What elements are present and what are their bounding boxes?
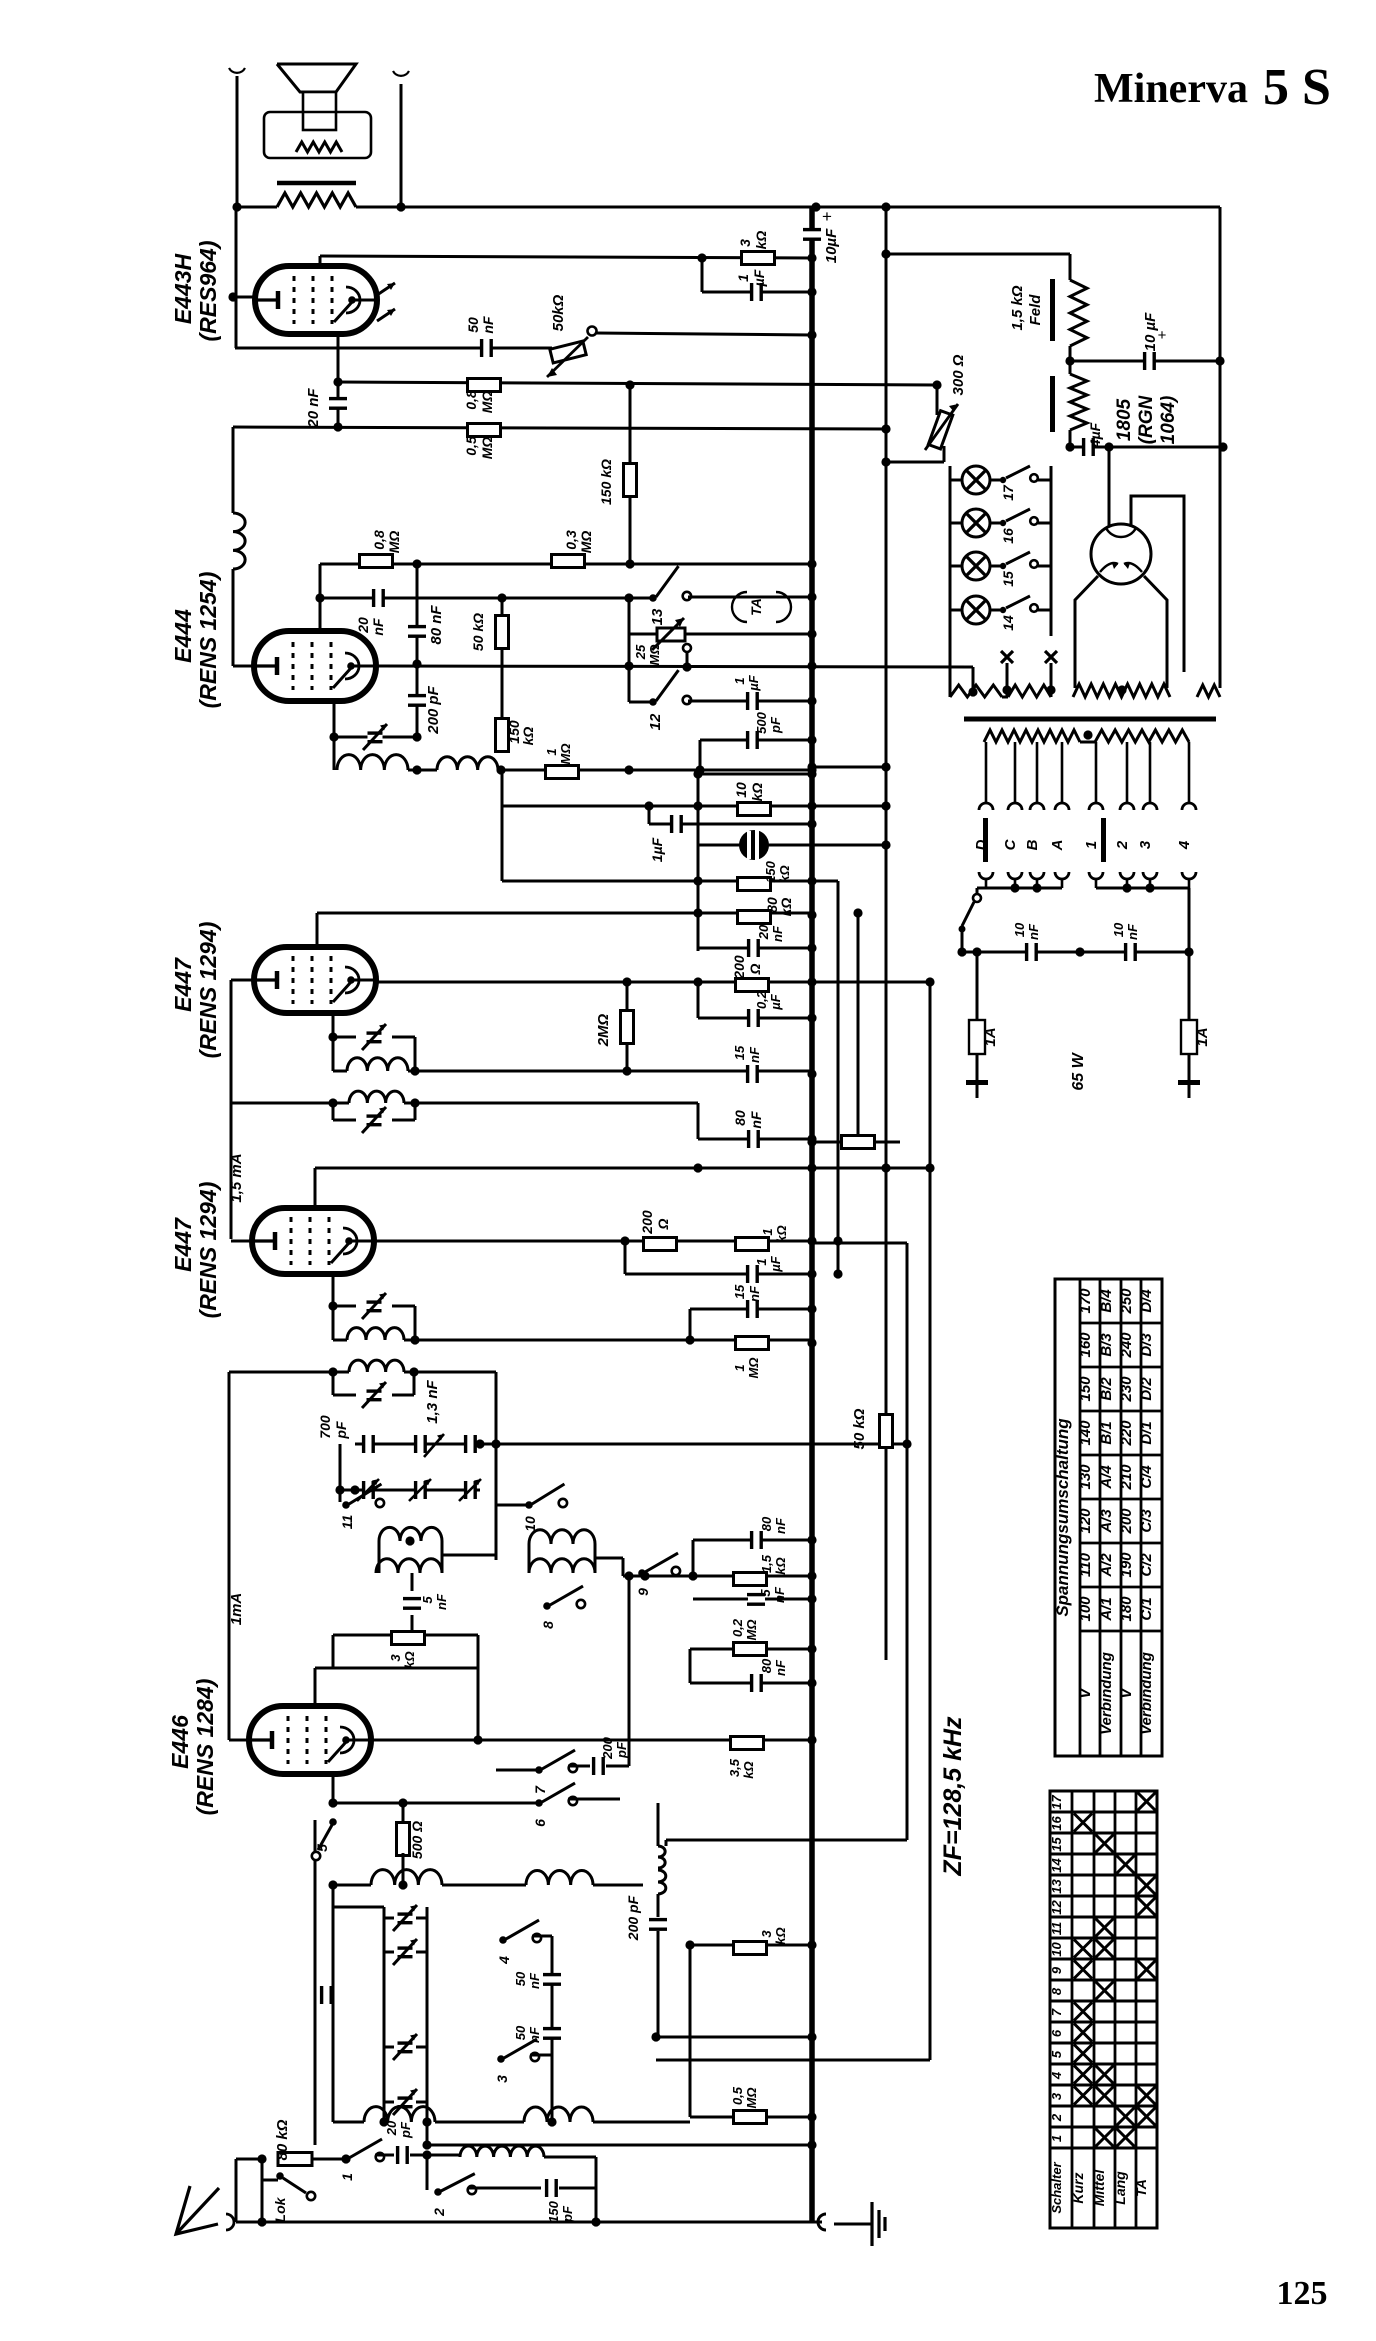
svg-text:kΩ: kΩ: [774, 1225, 789, 1242]
svg-text:0,3: 0,3: [563, 530, 579, 550]
svg-text:300 Ω: 300 Ω: [950, 354, 967, 395]
svg-text:B/1: B/1: [1098, 1421, 1115, 1444]
svg-text:ZF=128,5 kHz: ZF=128,5 kHz: [939, 1716, 967, 1877]
svg-text:20: 20: [756, 924, 771, 940]
svg-text:240: 240: [1118, 1332, 1135, 1359]
svg-text:C: C: [1002, 838, 1019, 850]
svg-text:3: 3: [1137, 840, 1154, 849]
svg-text:1: 1: [754, 1258, 769, 1265]
svg-text:4: 4: [1176, 840, 1193, 850]
svg-text:kΩ: kΩ: [741, 1761, 756, 1778]
svg-text:E447: E447: [170, 957, 196, 1012]
svg-text:TA: TA: [748, 598, 764, 616]
svg-text:A/2: A/2: [1098, 1553, 1115, 1578]
svg-text:150: 150: [763, 860, 778, 882]
svg-text:pF: pF: [560, 2205, 575, 2223]
svg-text:10: 10: [1049, 1942, 1064, 1957]
svg-text:700: 700: [317, 1415, 333, 1439]
svg-text:(RENS 1284): (RENS 1284): [192, 1679, 218, 1816]
svg-text:MΩ: MΩ: [746, 1358, 761, 1379]
svg-text:C/1: C/1: [1138, 1597, 1155, 1620]
svg-text:Ω: Ω: [655, 1218, 671, 1230]
svg-text:A/4: A/4: [1098, 1465, 1115, 1490]
svg-text:50 kΩ: 50 kΩ: [851, 1408, 868, 1449]
svg-text:5: 5: [758, 1589, 773, 1597]
svg-text:E443H: E443H: [170, 253, 196, 324]
svg-text:1064): 1064): [1158, 396, 1179, 445]
svg-text:1: 1: [735, 274, 751, 282]
svg-text:80: 80: [759, 1516, 774, 1531]
svg-text:7: 7: [532, 1785, 548, 1794]
svg-text:250: 250: [1118, 1288, 1135, 1315]
svg-text:120: 120: [1077, 1508, 1094, 1534]
svg-text:50: 50: [513, 2025, 528, 2040]
svg-text:11: 11: [1049, 1922, 1064, 1936]
svg-text:2: 2: [1049, 2113, 1064, 2122]
svg-text:6: 6: [1049, 2029, 1064, 2037]
svg-text:500 Ω: 500 Ω: [409, 1821, 425, 1859]
svg-text:0,8: 0,8: [371, 530, 387, 550]
svg-text:pF: pF: [768, 716, 783, 734]
svg-text:B/3: B/3: [1098, 1333, 1115, 1357]
svg-text:kΩ: kΩ: [402, 1651, 417, 1668]
svg-text:1,5: 1,5: [759, 1554, 774, 1573]
svg-text:65 W: 65 W: [1070, 1051, 1087, 1090]
svg-text:nF: nF: [773, 1517, 788, 1534]
svg-text:200: 200: [600, 1736, 615, 1759]
svg-text:1: 1: [732, 1364, 747, 1371]
svg-text:80: 80: [759, 1658, 774, 1673]
svg-text:100: 100: [1077, 1596, 1094, 1622]
svg-text:Schalter: Schalter: [1049, 2161, 1064, 2213]
svg-text:2MΩ: 2MΩ: [595, 1013, 612, 1047]
svg-text:4: 4: [1049, 2071, 1064, 2080]
svg-text:17: 17: [1049, 1795, 1064, 1810]
svg-text:(RENS 1294): (RENS 1294): [195, 922, 221, 1059]
svg-text:nF: nF: [747, 1046, 762, 1063]
svg-text:1: 1: [1083, 841, 1100, 849]
svg-text:10: 10: [1111, 922, 1126, 937]
svg-text:200: 200: [731, 955, 747, 980]
svg-text:E444: E444: [170, 609, 196, 663]
svg-text:D/1: D/1: [1138, 1421, 1155, 1444]
svg-text:130: 130: [1077, 1464, 1094, 1490]
svg-text:210: 210: [1118, 1464, 1135, 1491]
svg-text:µF: µF: [746, 674, 761, 691]
svg-text:MΩ: MΩ: [578, 531, 594, 554]
svg-text:10: 10: [733, 782, 749, 798]
svg-text:15: 15: [1049, 1837, 1064, 1852]
svg-text:16: 16: [1000, 528, 1016, 544]
svg-text:nF: nF: [770, 925, 785, 942]
svg-text:150: 150: [1077, 1376, 1094, 1402]
svg-text:1: 1: [1049, 2135, 1064, 2142]
svg-text:C/2: C/2: [1138, 1553, 1155, 1577]
svg-text:80 nF: 80 nF: [428, 605, 445, 645]
svg-text:230: 230: [1118, 1376, 1135, 1403]
svg-text:A: A: [1049, 840, 1066, 852]
svg-text:1: 1: [544, 748, 559, 755]
svg-text:3,5: 3,5: [727, 1758, 742, 1777]
svg-text:50 kΩ: 50 kΩ: [470, 613, 486, 651]
svg-text:10µF: 10µF: [823, 228, 840, 263]
svg-text:6: 6: [532, 1819, 548, 1827]
svg-text:14: 14: [1000, 615, 1016, 631]
svg-text:D/3: D/3: [1138, 1333, 1155, 1357]
svg-text:C/4: C/4: [1138, 1465, 1155, 1489]
svg-text:nF: nF: [748, 1111, 764, 1129]
svg-text:nF: nF: [1125, 923, 1140, 940]
svg-text:kΩ: kΩ: [773, 1927, 788, 1944]
svg-text:8: 8: [1049, 1987, 1064, 1995]
svg-text:kΩ: kΩ: [777, 865, 792, 882]
svg-text:µF: µF: [768, 993, 783, 1010]
svg-text:0,8: 0,8: [463, 390, 479, 410]
svg-text:140: 140: [1077, 1420, 1094, 1446]
svg-text:V: V: [1077, 1687, 1094, 1699]
svg-text:1,3 nF: 1,3 nF: [424, 1379, 441, 1423]
svg-text:Verbindung: Verbindung: [1098, 1652, 1115, 1735]
svg-text:MΩ: MΩ: [479, 391, 495, 414]
svg-text:160: 160: [1077, 1332, 1094, 1358]
svg-text:pF: pF: [333, 1421, 349, 1440]
svg-text:C/3: C/3: [1138, 1509, 1155, 1533]
svg-text:4µF: 4µF: [1087, 422, 1103, 448]
svg-text:B: B: [1024, 839, 1041, 850]
svg-text:nF: nF: [747, 1285, 762, 1302]
svg-text:9: 9: [1049, 1966, 1064, 1974]
svg-text:11: 11: [339, 1515, 355, 1530]
svg-text:15: 15: [732, 1045, 747, 1060]
svg-text:150 kΩ: 150 kΩ: [598, 459, 614, 505]
svg-text:500: 500: [754, 711, 769, 733]
svg-text:1,5 kΩ: 1,5 kΩ: [1009, 285, 1026, 330]
svg-text:13: 13: [1049, 1879, 1064, 1894]
svg-text:+: +: [822, 207, 832, 226]
svg-text:8: 8: [540, 1621, 556, 1629]
svg-text:1: 1: [732, 677, 747, 684]
svg-text:pF: pF: [398, 2121, 413, 2139]
svg-text:0,2: 0,2: [730, 1618, 745, 1637]
svg-text:D/4: D/4: [1138, 1289, 1155, 1313]
svg-text:kΩ: kΩ: [753, 231, 769, 250]
svg-text:µF: µF: [751, 269, 767, 287]
svg-text:Minerva: Minerva: [1094, 66, 1248, 112]
svg-text:Lang: Lang: [1112, 2171, 1128, 2205]
svg-text:kΩ: kΩ: [749, 783, 765, 802]
svg-text:(RENS 1294): (RENS 1294): [195, 1182, 221, 1319]
svg-text:nF: nF: [1026, 923, 1041, 940]
svg-text:1µF: 1µF: [649, 837, 665, 862]
svg-text:180: 180: [1118, 1596, 1135, 1622]
svg-text:B/4: B/4: [1098, 1289, 1115, 1313]
svg-text:1A: 1A: [1194, 1027, 1211, 1046]
svg-text:3: 3: [737, 239, 753, 247]
svg-text:200: 200: [1118, 1508, 1135, 1535]
svg-text:50: 50: [465, 317, 481, 333]
svg-text:0,5: 0,5: [730, 2086, 745, 2105]
svg-text:nF: nF: [773, 1659, 788, 1676]
svg-text:20: 20: [355, 617, 371, 634]
svg-text:9: 9: [635, 1588, 651, 1596]
svg-text:13: 13: [649, 608, 666, 625]
svg-text:0,5: 0,5: [463, 436, 479, 456]
svg-text:150: 150: [546, 2200, 561, 2222]
svg-text:TA: TA: [1133, 2179, 1149, 2197]
svg-text:125: 125: [1277, 2275, 1328, 2312]
svg-text:1: 1: [339, 2173, 355, 2181]
svg-text:3: 3: [494, 2075, 510, 2083]
svg-text:25: 25: [633, 644, 648, 660]
svg-text:D/2: D/2: [1138, 1377, 1155, 1401]
svg-text:12: 12: [1049, 1900, 1064, 1915]
svg-text:nF: nF: [527, 1972, 542, 1989]
svg-text:3: 3: [1049, 2092, 1064, 2100]
svg-text:Kurz: Kurz: [1070, 2172, 1086, 2203]
svg-text:B/2: B/2: [1098, 1377, 1115, 1401]
svg-text:Mittel: Mittel: [1091, 2169, 1107, 2207]
svg-text:V: V: [1118, 1687, 1135, 1699]
svg-text:MΩ: MΩ: [558, 744, 573, 765]
svg-text:50: 50: [513, 1971, 528, 1986]
svg-text:15: 15: [1000, 571, 1016, 587]
svg-text:(RES964): (RES964): [195, 241, 221, 342]
svg-text:kΩ: kΩ: [520, 727, 536, 746]
svg-text:190: 190: [1118, 1552, 1135, 1578]
svg-text:20: 20: [384, 2120, 399, 2136]
svg-text:E447: E447: [170, 1217, 196, 1272]
svg-text:Verbindung: Verbindung: [1138, 1652, 1155, 1735]
svg-text:20 nF: 20 nF: [305, 388, 322, 429]
svg-text:Lok: Lok: [272, 2196, 288, 2222]
svg-text:nF: nF: [434, 1593, 449, 1610]
svg-text:E446: E446: [167, 1715, 193, 1769]
svg-text:MΩ: MΩ: [386, 531, 402, 554]
svg-text:µF: µF: [768, 1255, 783, 1272]
svg-text:nF: nF: [480, 316, 496, 334]
svg-text:12: 12: [647, 713, 664, 730]
svg-text:nF: nF: [370, 618, 386, 636]
svg-text:4: 4: [496, 1956, 512, 1965]
svg-text:A/3: A/3: [1098, 1509, 1115, 1534]
svg-text:1: 1: [760, 1228, 775, 1235]
svg-text:200: 200: [639, 1210, 655, 1235]
svg-text:170: 170: [1077, 1288, 1094, 1314]
svg-text:A/1: A/1: [1098, 1597, 1115, 1621]
svg-text:110: 110: [1077, 1552, 1094, 1577]
svg-text:1A: 1A: [982, 1027, 999, 1046]
svg-text:14: 14: [1049, 1858, 1064, 1873]
svg-text:1,5 mA: 1,5 mA: [228, 1153, 245, 1202]
svg-text:MΩ: MΩ: [479, 437, 495, 460]
svg-text:80: 80: [732, 1110, 748, 1126]
svg-text:(RENS 1254): (RENS 1254): [195, 572, 221, 709]
svg-text:pF: pF: [614, 1741, 629, 1759]
svg-text:2: 2: [1114, 840, 1131, 850]
svg-text:2: 2: [431, 2208, 447, 2217]
svg-text:10 µF: 10 µF: [1142, 312, 1159, 351]
svg-text:15: 15: [732, 1284, 747, 1299]
svg-text:17: 17: [1000, 484, 1016, 501]
svg-text:1805: 1805: [1114, 398, 1135, 441]
svg-text:kΩ: kΩ: [773, 1557, 788, 1574]
svg-text:MΩ: MΩ: [744, 1620, 759, 1641]
svg-text:MΩ: MΩ: [744, 2088, 759, 2109]
svg-text:200 pF: 200 pF: [625, 1895, 641, 1941]
svg-text:0,2: 0,2: [754, 990, 769, 1009]
svg-text:200 pF: 200 pF: [425, 685, 442, 734]
svg-text:MΩ: MΩ: [647, 645, 662, 666]
svg-text:7: 7: [1049, 2008, 1064, 2016]
svg-text:5: 5: [420, 1596, 435, 1604]
svg-text:3: 3: [759, 1930, 774, 1938]
svg-text:5: 5: [1049, 2050, 1064, 2058]
svg-text:16: 16: [1049, 1816, 1064, 1831]
svg-text:Feld: Feld: [1027, 294, 1044, 326]
svg-text:5 S: 5 S: [1263, 59, 1331, 116]
svg-text:3: 3: [388, 1654, 403, 1662]
svg-text:(RGN: (RGN: [1136, 394, 1157, 444]
svg-text:Ω: Ω: [747, 963, 763, 975]
svg-text:80 kΩ: 80 kΩ: [274, 2119, 291, 2160]
svg-text:kΩ: kΩ: [778, 898, 794, 917]
svg-text:220: 220: [1118, 1420, 1135, 1447]
svg-text:5: 5: [314, 1844, 330, 1852]
svg-text:1mA: 1mA: [228, 1593, 245, 1626]
svg-text:10: 10: [1012, 922, 1027, 937]
svg-text:50kΩ: 50kΩ: [550, 294, 567, 331]
svg-text:Spannungsumschaltung: Spannungsumschaltung: [1053, 1418, 1072, 1617]
